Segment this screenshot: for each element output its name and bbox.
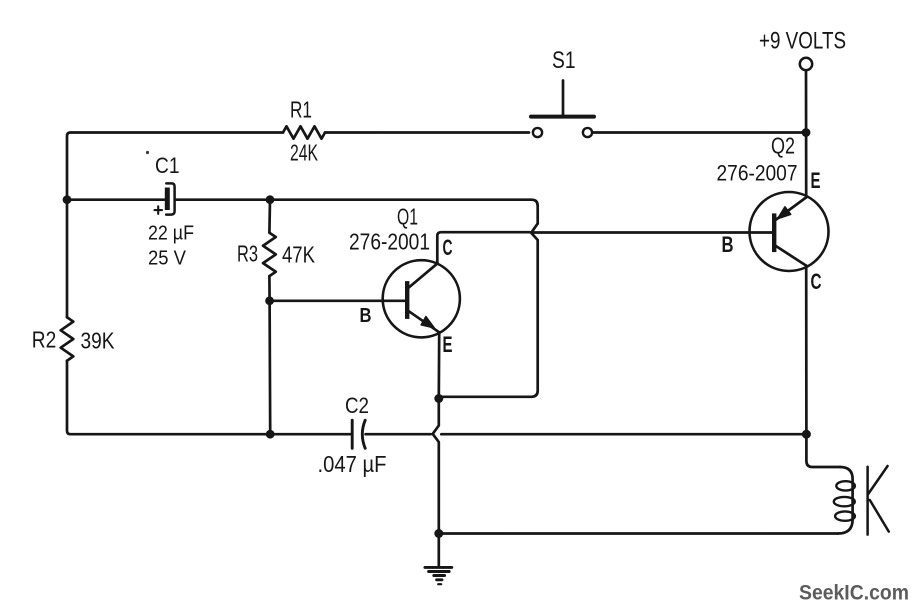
node C1/R3 [266, 195, 275, 204]
svg-text:S1: S1 [552, 47, 576, 74]
wire relay top lead [806, 434, 840, 467]
svg-text:+9 VOLTS: +9 VOLTS [759, 28, 846, 55]
resistor R1 [283, 126, 325, 138]
svg-text:25 V: 25 V [148, 248, 187, 270]
wire +9V down to Q2 emitter [805, 71, 808, 198]
ground [425, 567, 452, 584]
switch S1 [531, 81, 594, 138]
svg-text:Q1: Q1 [397, 204, 418, 230]
resistor R2 [61, 317, 74, 360]
svg-text:E: E [811, 168, 821, 193]
svg-text:C2: C2 [345, 393, 369, 418]
wire junction to Q2 collector node [441, 433, 802, 436]
wire S1 to +9V node [592, 131, 806, 134]
wire Q2 collector down to node [805, 266, 808, 435]
node Q2 collector / relay [802, 430, 811, 439]
wire left rail [66, 200, 69, 318]
node left C1 [63, 195, 72, 204]
relay coil K [834, 466, 889, 535]
wire emitter node down with jog to ground [433, 399, 439, 534]
wire R2 to bottom rail [67, 361, 351, 435]
speck near C1 label [146, 151, 149, 154]
svg-text:22 µF: 22 µF [148, 222, 194, 244]
svg-text:276-2007: 276-2007 [717, 161, 798, 186]
+9 VOLTS terminal [800, 58, 812, 70]
node ground junction [434, 529, 443, 538]
svg-text:C: C [443, 235, 453, 260]
node +9V junction [802, 128, 811, 137]
wire to ground [437, 534, 440, 567]
node Q1 base [265, 296, 274, 305]
transistor Q1 [383, 260, 460, 337]
svg-text:Q2: Q2 [771, 133, 795, 159]
wire Q1 collector up and right to junction [437, 232, 530, 262]
svg-text:E: E [443, 332, 453, 357]
svg-text:R3: R3 [237, 241, 258, 267]
wire Q2 base from junction [534, 231, 775, 234]
svg-text:R1: R1 [290, 97, 312, 123]
wire R3 top lead [268, 200, 271, 233]
wire R3 bottom to base node [268, 276, 271, 301]
svg-text:47K: 47K [282, 241, 316, 267]
capacitor C2 [352, 420, 365, 448]
wire Q1 base [270, 299, 408, 302]
svg-text:C1: C1 [155, 153, 180, 178]
capacitor C1 [155, 183, 175, 214]
wire jog at junction (feedback vertical) [439, 224, 538, 397]
svg-text:B: B [360, 305, 372, 327]
resistor R3 [263, 233, 276, 276]
svg-text:C: C [811, 269, 822, 294]
svg-text:B: B [722, 232, 734, 257]
svg-text:SeekIC.com: SeekIC.com [799, 581, 909, 605]
svg-text:276-2001: 276-2001 [349, 229, 430, 255]
wire C1 left lead [67, 198, 165, 201]
node bottom rail / C2 left [266, 430, 275, 439]
wire Q1 emitter down [437, 332, 440, 397]
svg-text:24K: 24K [290, 140, 318, 166]
svg-text:.047 µF: .047 µF [318, 451, 387, 477]
wire C1 to node, to feedback corner [176, 200, 538, 224]
wire C2 right to emitter-line junction [366, 433, 431, 436]
wire base node down to bottom rail [268, 301, 271, 434]
svg-text:39K: 39K [81, 327, 116, 353]
wire relay bottom return [439, 532, 838, 535]
transistor Q2 [750, 192, 829, 271]
wire R1 to S1 [325, 131, 529, 134]
wire top-left segment [67, 133, 283, 200]
node Q1 emitter / feedback [434, 394, 443, 403]
svg-text:R2: R2 [32, 327, 57, 353]
